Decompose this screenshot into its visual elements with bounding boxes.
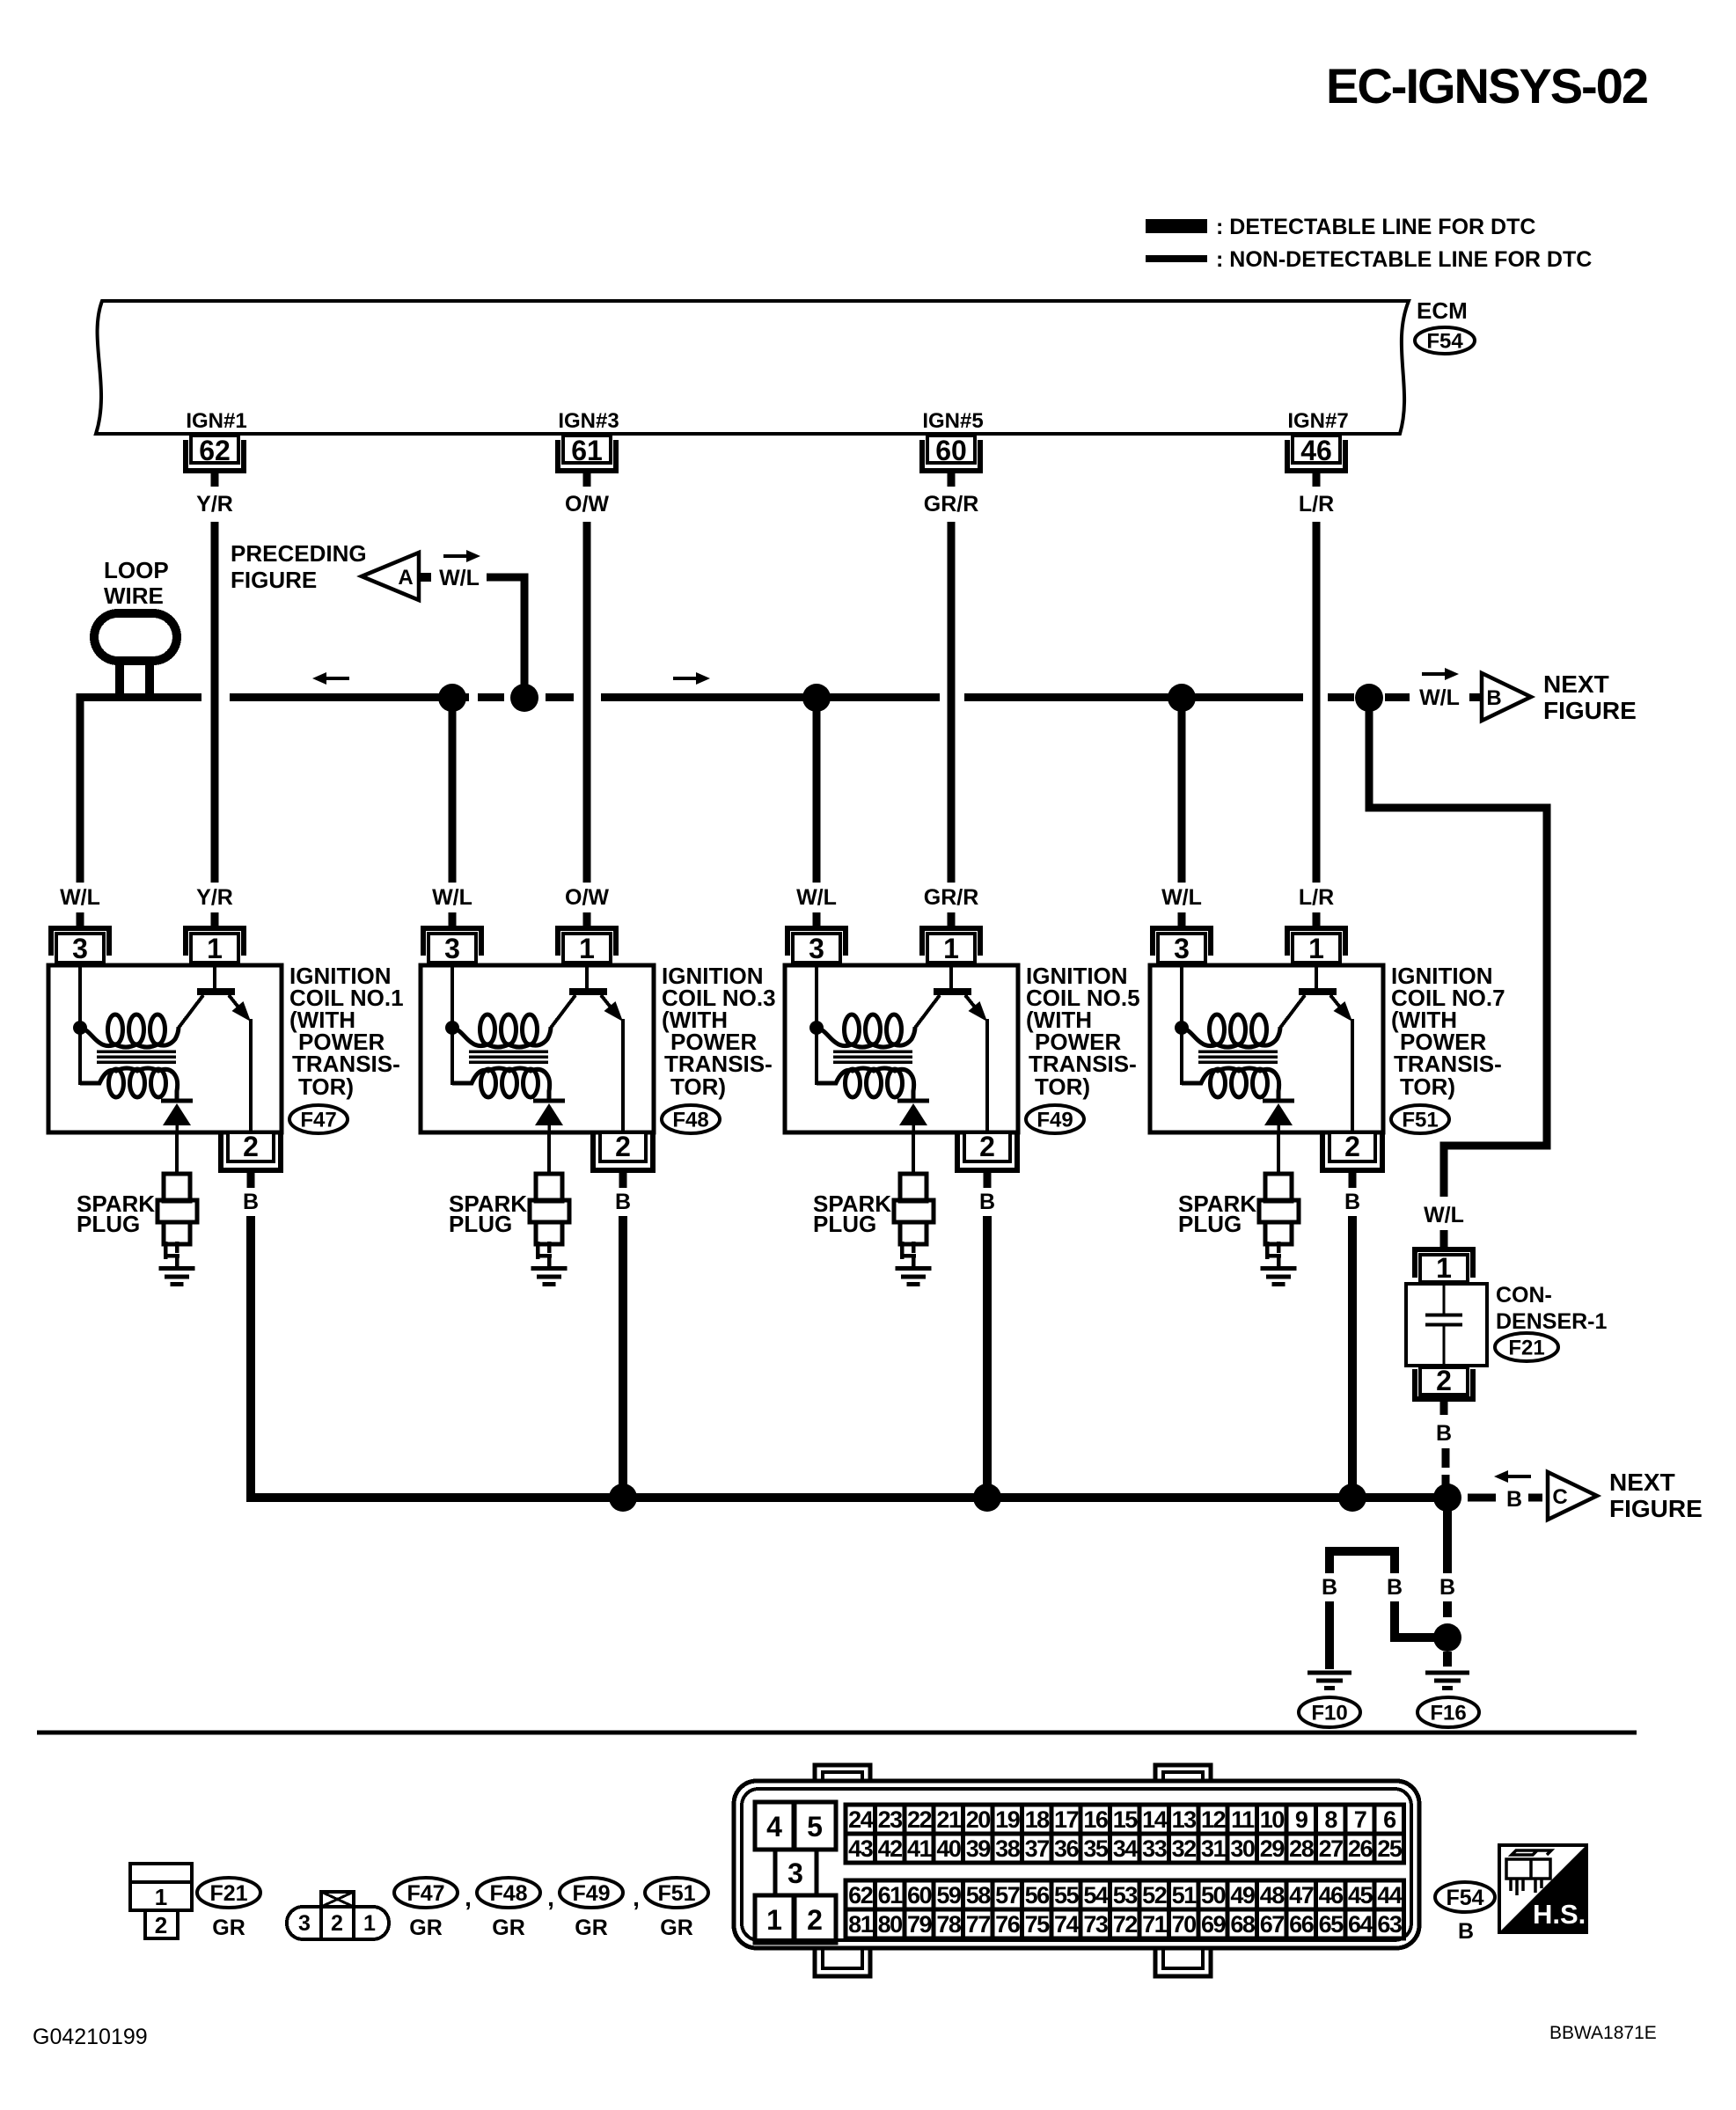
svg-text:B: B: [615, 1190, 631, 1214]
svg-text:61: 61: [878, 1882, 904, 1909]
coil NO.7 primary winding: [1182, 1027, 1280, 1047]
coil NO.3 secondary winding: [452, 1068, 550, 1099]
coil NO.7 internal junction dot: [1175, 1021, 1189, 1035]
ECM pin 60: [922, 440, 980, 471]
svg-text:GR: GR: [575, 1916, 608, 1940]
svg-text:53: 53: [1113, 1882, 1139, 1909]
svg-text:2: 2: [155, 1912, 167, 1938]
spark plug ground for coil NO.1: [159, 1266, 195, 1271]
wire W/L vertical to coil pin 3 at x=91: [77, 693, 84, 883]
wire B from coil NO.7 pin 2: [1348, 1216, 1357, 1496]
ECM pin 46: [1287, 440, 1345, 471]
junction dot bus/coil7 B: [1338, 1484, 1366, 1512]
svg-text:14: 14: [1142, 1806, 1168, 1833]
svg-text:2: 2: [331, 1911, 343, 1936]
svg-text:23: 23: [878, 1806, 904, 1833]
svg-text:L/R: L/R: [1299, 492, 1334, 517]
coil NO.7 pin 3: [1153, 928, 1211, 956]
spark plug for coil NO.3: [547, 1132, 551, 1174]
svg-text:W/L: W/L: [432, 885, 472, 910]
svg-text:63: 63: [1377, 1911, 1403, 1938]
loop wire symbol: [94, 613, 177, 661]
svg-text:F21: F21: [1508, 1337, 1544, 1360]
svg-text:B: B: [1322, 1575, 1337, 1600]
svg-text:F47: F47: [300, 1109, 336, 1132]
legend non-detectable line swatch: [1146, 255, 1207, 262]
svg-text:F48: F48: [672, 1109, 708, 1132]
junction dot bus/coil3 B: [609, 1484, 637, 1512]
svg-text:41: 41: [907, 1835, 933, 1862]
svg-text:46: 46: [1300, 435, 1332, 466]
wire W/L vertical to coil pin 3 at x=1343: [1178, 704, 1186, 883]
condenser pin 2: [1415, 1369, 1473, 1399]
svg-text:32: 32: [1172, 1835, 1197, 1862]
svg-text:B: B: [1458, 1919, 1474, 1944]
svg-text:W/L: W/L: [60, 885, 100, 910]
svg-text:22: 22: [907, 1806, 932, 1833]
ground ref F16: [1417, 1697, 1479, 1727]
coil NO.3 pin 3: [423, 928, 481, 956]
B bus dash right 2: [1528, 1494, 1542, 1502]
ignition coil NO.7 box: [1150, 965, 1383, 1132]
spark plug for coil NO.5: [912, 1132, 915, 1174]
condenser box: [1406, 1284, 1487, 1366]
B bus dash right: [1468, 1494, 1496, 1502]
svg-text:FIGURE: FIGURE: [231, 567, 317, 593]
svg-text:45: 45: [1348, 1882, 1373, 1909]
coil NO.3 diode: [533, 1099, 565, 1103]
svg-text:,: ,: [547, 1884, 554, 1911]
svg-text:49: 49: [1230, 1882, 1256, 1909]
svg-text:1: 1: [363, 1911, 376, 1936]
wire B from coil NO.5 pin 2: [983, 1216, 992, 1496]
svg-text:7: 7: [1354, 1806, 1366, 1833]
svg-text:33: 33: [1142, 1835, 1168, 1862]
svg-text:29: 29: [1260, 1835, 1286, 1862]
coil NO.1 internal junction dot: [73, 1021, 87, 1035]
coil NO.7 secondary winding: [1182, 1068, 1279, 1099]
off-page triangle A: [362, 553, 419, 600]
svg-text:TOR): TOR): [298, 1073, 354, 1100]
svg-text:PLUG: PLUG: [77, 1211, 140, 1237]
coil NO.1 primary winding: [80, 1027, 179, 1047]
svg-text:31: 31: [1201, 1835, 1227, 1862]
svg-text:61: 61: [571, 435, 603, 466]
svg-text:TOR): TOR): [1400, 1073, 1455, 1100]
svg-text:PLUG: PLUG: [813, 1211, 876, 1237]
svg-text:1: 1: [579, 933, 595, 964]
coil NO.7 pin 2: [1322, 1134, 1382, 1170]
svg-text:60: 60: [935, 435, 967, 466]
B ground bus: [250, 1493, 1452, 1502]
coil NO.5 pin 1: [922, 928, 980, 956]
svg-text:9: 9: [1295, 1806, 1308, 1833]
svg-text:G04210199: G04210199: [33, 2025, 148, 2049]
connector view F21 (condenser) icon: [130, 1864, 192, 1910]
svg-text:37: 37: [1025, 1835, 1050, 1862]
spark plug ground for coil NO.5: [896, 1266, 932, 1271]
wire B dashed from condenser to bus: [1442, 1448, 1450, 1468]
svg-text:47: 47: [1289, 1882, 1314, 1909]
svg-text:3: 3: [72, 933, 88, 964]
svg-text:81: 81: [848, 1911, 874, 1938]
coil NO.1 diode: [161, 1099, 193, 1103]
coil NO.7 power transistor: [1315, 967, 1318, 989]
svg-text:36: 36: [1054, 1835, 1080, 1862]
coil NO.7 internal pin3 wire: [1182, 967, 1201, 1083]
svg-text:34: 34: [1113, 1835, 1139, 1862]
svg-text:80: 80: [878, 1911, 903, 1938]
svg-text:,: ,: [633, 1884, 640, 1911]
ECM connector key block: [755, 1802, 794, 1850]
svg-text:3: 3: [787, 1857, 803, 1889]
wire stub to condenser pin 1: [1440, 1230, 1448, 1247]
coil NO.1 pin 3: [51, 928, 109, 956]
coil NO.5 secondary winding: [817, 1068, 914, 1099]
svg-text:NEXT: NEXT: [1543, 670, 1609, 698]
coil NO.7 core: [1198, 1050, 1278, 1053]
coil NO.5 core: [833, 1050, 912, 1053]
svg-text:1: 1: [155, 1884, 167, 1910]
W/L bus dash a: [478, 693, 504, 701]
svg-text:70: 70: [1172, 1911, 1197, 1938]
svg-text:GR/R: GR/R: [924, 885, 979, 910]
svg-text:18: 18: [1025, 1806, 1051, 1833]
wire L/R vertical from ECM pin 46: [1313, 522, 1321, 883]
W/L bus dash b: [1328, 693, 1354, 701]
coil NO.1 emitter wire to pin 2: [249, 1019, 253, 1132]
svg-text:12: 12: [1201, 1806, 1226, 1833]
svg-text:2: 2: [807, 1904, 823, 1936]
coil NO.7 pin 1: [1287, 928, 1345, 956]
svg-text:27: 27: [1319, 1835, 1344, 1862]
svg-text:65: 65: [1319, 1911, 1344, 1938]
W/L bus segment 4: [601, 693, 940, 701]
off-page triangle B: [1482, 673, 1531, 721]
junction dot above F16: [1433, 1623, 1461, 1652]
coil NO.3 primary winding: [452, 1027, 551, 1047]
svg-text:EC-IGNSYS-02: EC-IGNSYS-02: [1326, 58, 1647, 114]
wire O/W vertical from ECM pin 61: [583, 522, 591, 883]
svg-text:CON-: CON-: [1496, 1283, 1552, 1308]
ECM connector view tabs: [815, 1765, 870, 1786]
svg-text:67: 67: [1260, 1911, 1285, 1938]
svg-text:15: 15: [1113, 1806, 1139, 1833]
svg-text:B: B: [243, 1190, 259, 1214]
W/L bus dash d: [1469, 693, 1480, 701]
svg-text:FIGURE: FIGURE: [1543, 697, 1637, 724]
junction dot bus/coil3 W/L: [438, 684, 466, 712]
svg-text:26: 26: [1348, 1835, 1373, 1862]
svg-text:IGN#7: IGN#7: [1287, 409, 1348, 433]
svg-text:H.S.: H.S.: [1533, 1899, 1586, 1930]
svg-text:B: B: [1486, 686, 1501, 710]
coil NO.3 internal pin3 wire: [452, 967, 472, 1083]
svg-text:21: 21: [936, 1806, 962, 1833]
svg-text:TOR): TOR): [1035, 1073, 1090, 1100]
svg-text:16: 16: [1083, 1806, 1109, 1833]
ECM connector pin grid upper: [846, 1805, 875, 1834]
svg-text:13: 13: [1172, 1806, 1198, 1833]
svg-text:64: 64: [1348, 1911, 1373, 1938]
ECM connector view ref F54: [1435, 1882, 1495, 1912]
ignition coil NO.1 box: [48, 965, 282, 1132]
connector view ref F47: [394, 1878, 458, 1908]
wire Y/R vertical from ECM pin 62: [211, 522, 219, 883]
H.S. logo: [1499, 1845, 1586, 1932]
svg-text:GR: GR: [492, 1916, 525, 1940]
svg-text:2: 2: [979, 1131, 995, 1162]
svg-text:L/R: L/R: [1299, 885, 1334, 910]
svg-text:W/L: W/L: [1161, 885, 1202, 910]
off-page triangle C: [1548, 1472, 1597, 1520]
svg-text:1: 1: [207, 933, 223, 964]
ECM connector view body: [734, 1781, 1419, 1948]
wire B middle leg to junction: [1395, 1601, 1434, 1637]
coil NO.7 emitter wire to pin 2: [1351, 1019, 1354, 1132]
svg-text:3: 3: [1174, 933, 1190, 964]
svg-text:,: ,: [465, 1884, 472, 1911]
junction dot bus/condenser wire: [1355, 684, 1383, 712]
svg-text:BBWA1871E: BBWA1871E: [1549, 2023, 1657, 2043]
svg-text:DENSER-1: DENSER-1: [1496, 1309, 1608, 1334]
svg-text:43: 43: [848, 1835, 874, 1862]
coil NO.7 diode: [1263, 1099, 1294, 1103]
svg-text:F47: F47: [407, 1881, 444, 1906]
svg-text:Y/R: Y/R: [196, 885, 233, 910]
svg-text:51: 51: [1172, 1882, 1198, 1909]
svg-text:B: B: [1387, 1575, 1403, 1600]
svg-text:38: 38: [995, 1835, 1021, 1862]
svg-text:W/L: W/L: [1419, 685, 1460, 710]
svg-text:66: 66: [1289, 1911, 1315, 1938]
svg-text:W/L: W/L: [439, 566, 480, 590]
svg-text:62: 62: [199, 435, 231, 466]
svg-text:60: 60: [907, 1882, 932, 1909]
svg-text:FIGURE: FIGURE: [1609, 1495, 1703, 1522]
svg-text:F51: F51: [1402, 1109, 1438, 1132]
ignition coil NO.3 box: [421, 965, 654, 1132]
svg-text:3: 3: [298, 1911, 311, 1936]
wire B from bus down to grounds: [1443, 1502, 1452, 1573]
svg-text:GR: GR: [409, 1916, 443, 1940]
W/L bus segment 3: [546, 693, 574, 701]
svg-text:59: 59: [936, 1882, 962, 1909]
coil NO.1 core: [97, 1050, 176, 1053]
coil NO.3 power transistor: [585, 967, 589, 989]
svg-text:GR: GR: [660, 1916, 693, 1940]
svg-text:28: 28: [1289, 1835, 1315, 1862]
coil NO.3 core: [469, 1050, 548, 1053]
svg-text:68: 68: [1230, 1911, 1256, 1938]
svg-text:F54: F54: [1426, 330, 1463, 354]
coil NO.1 pin 2: [221, 1134, 281, 1170]
svg-text:75: 75: [1025, 1911, 1051, 1938]
svg-text:F16: F16: [1430, 1702, 1466, 1725]
wire B from coil NO.1 pin 2: [251, 1216, 264, 1498]
svg-text:3: 3: [809, 933, 824, 964]
svg-text:3: 3: [444, 933, 460, 964]
spark plug ground for coil NO.7: [1261, 1266, 1297, 1271]
arrow left above B: [1494, 1470, 1531, 1483]
svg-text:A: A: [398, 566, 413, 590]
svg-text:PRECEDING: PRECEDING: [231, 540, 367, 567]
svg-text:Y/R: Y/R: [196, 492, 233, 517]
ECM box (connector F54): [96, 301, 1409, 434]
svg-text:1: 1: [1436, 1252, 1452, 1284]
svg-text:TOR): TOR): [670, 1073, 726, 1100]
svg-text:74: 74: [1054, 1911, 1080, 1938]
svg-text:79: 79: [907, 1911, 933, 1938]
condenser connector ref F21: [1495, 1333, 1558, 1361]
coil NO.5 connector ref F49: [1026, 1105, 1084, 1133]
svg-text:44: 44: [1377, 1882, 1403, 1909]
coil NO.1 power transistor: [213, 967, 216, 989]
svg-text:62: 62: [848, 1882, 873, 1909]
junction dot bus/coil5 B: [973, 1484, 1001, 1512]
svg-text:78: 78: [936, 1911, 962, 1938]
ECM connector pin grid lower: [846, 1880, 875, 1909]
svg-text:: NON-DETECTABLE LINE FOR DTC: : NON-DETECTABLE LINE FOR DTC: [1216, 247, 1592, 272]
svg-text:5: 5: [807, 1811, 823, 1843]
junction dot bus/A wire: [510, 684, 538, 712]
wire B to ground F10: [1325, 1601, 1334, 1669]
svg-text:2: 2: [1344, 1131, 1360, 1162]
junction dot bus/coil5 W/L: [802, 684, 831, 712]
svg-text:GR: GR: [212, 1916, 245, 1940]
svg-text:F49: F49: [572, 1881, 610, 1906]
svg-text:40: 40: [936, 1835, 961, 1862]
spark plug ground for coil NO.3: [531, 1266, 568, 1271]
svg-text:35: 35: [1083, 1835, 1109, 1862]
junction dot bus/coil7 W/L: [1168, 684, 1196, 712]
coil NO.1 internal pin3 wire: [80, 967, 99, 1083]
svg-text:77: 77: [966, 1911, 991, 1938]
svg-text:F21: F21: [209, 1881, 247, 1906]
svg-text:2: 2: [243, 1131, 259, 1162]
legend detectable line swatch: [1146, 219, 1207, 233]
spark plug for coil NO.7: [1277, 1132, 1280, 1174]
ECM pin 62: [186, 440, 244, 471]
ground symbol F16: [1425, 1671, 1469, 1675]
spark plug for coil NO.1: [175, 1132, 179, 1174]
svg-text:GR/R: GR/R: [924, 492, 979, 517]
svg-text:1: 1: [1308, 933, 1324, 964]
svg-text:F49: F49: [1036, 1109, 1073, 1132]
svg-text:48: 48: [1260, 1882, 1286, 1909]
svg-text:B: B: [1506, 1487, 1522, 1512]
svg-text:50: 50: [1201, 1882, 1226, 1909]
svg-text:B: B: [1436, 1421, 1452, 1446]
wire color label W/L (B, on bus): [1411, 679, 1468, 711]
svg-text:25: 25: [1377, 1835, 1403, 1862]
svg-text:6: 6: [1383, 1806, 1396, 1833]
coil NO.3 pin 1: [558, 928, 616, 956]
arrow right on bus: [673, 672, 710, 685]
wire GR/R vertical from ECM pin 60: [948, 522, 956, 883]
svg-text:71: 71: [1142, 1911, 1168, 1938]
W/L bus segment 5: [964, 693, 1303, 701]
svg-text:39: 39: [966, 1835, 992, 1862]
svg-text:IGN#5: IGN#5: [922, 409, 983, 433]
svg-text:IGN#1: IGN#1: [186, 409, 246, 433]
svg-text:1: 1: [943, 933, 959, 964]
svg-text:O/W: O/W: [565, 492, 609, 517]
wire B dash above F16 junction: [1443, 1601, 1452, 1617]
svg-text:B: B: [979, 1190, 995, 1214]
coil NO.7 connector ref F51: [1391, 1105, 1449, 1133]
svg-text:30: 30: [1230, 1835, 1255, 1862]
connector view ref F49: [560, 1878, 623, 1908]
svg-text:55: 55: [1054, 1882, 1080, 1909]
ECM connector ref F54: [1415, 327, 1475, 354]
svg-text:10: 10: [1260, 1806, 1285, 1833]
svg-text:2: 2: [615, 1131, 631, 1162]
svg-text:F54: F54: [1446, 1886, 1483, 1910]
coil NO.5 power transistor: [949, 967, 953, 989]
ignition coil NO.5 box: [785, 965, 1018, 1132]
coil NO.3 emitter wire to pin 2: [621, 1019, 625, 1132]
svg-text:52: 52: [1142, 1882, 1167, 1909]
svg-text:W/L: W/L: [1424, 1203, 1464, 1227]
svg-text:57: 57: [995, 1882, 1020, 1909]
svg-text:NEXT: NEXT: [1609, 1469, 1675, 1496]
ECM pin 61: [558, 440, 616, 471]
svg-text:58: 58: [966, 1882, 992, 1909]
coil NO.3 connector ref F48: [662, 1105, 720, 1133]
condenser pin 1: [1415, 1249, 1473, 1278]
ground symbol F10: [1307, 1671, 1351, 1675]
wire B from coil NO.3 pin 2: [619, 1216, 627, 1496]
wire B dash to F16 ground: [1443, 1652, 1452, 1667]
svg-text:11: 11: [1231, 1806, 1255, 1833]
svg-text:20: 20: [966, 1806, 991, 1833]
coil NO.1 connector ref F47: [289, 1105, 348, 1133]
svg-text:24: 24: [848, 1806, 874, 1833]
svg-text:B: B: [1344, 1190, 1360, 1214]
svg-text:1: 1: [766, 1904, 782, 1936]
svg-text:42: 42: [878, 1835, 903, 1862]
coil NO.3 pin 2: [593, 1134, 653, 1170]
svg-text:2: 2: [1436, 1365, 1452, 1396]
svg-text:54: 54: [1083, 1882, 1109, 1909]
condenser capacitor symbol: [1443, 1282, 1446, 1314]
connector view ref F51: [645, 1878, 708, 1908]
svg-text:W/L: W/L: [796, 885, 837, 910]
svg-text:PLUG: PLUG: [449, 1211, 512, 1237]
coil NO.5 pin 2: [957, 1134, 1017, 1170]
svg-text:73: 73: [1083, 1911, 1109, 1938]
coil NO.5 primary winding: [817, 1027, 915, 1047]
svg-text:IGN#3: IGN#3: [558, 409, 619, 433]
svg-text:19: 19: [995, 1806, 1021, 1833]
wire W/L from A to bus: [487, 577, 524, 692]
svg-text:: DETECTABLE LINE FOR DTC: : DETECTABLE LINE FOR DTC: [1216, 215, 1535, 239]
separator rule: [37, 1731, 1637, 1735]
coil NO.5 emitter wire to pin 2: [985, 1019, 989, 1132]
ground harness bracket: [1329, 1551, 1395, 1573]
svg-text:LOOP: LOOP: [104, 557, 169, 583]
coil NO.5 internal junction dot: [809, 1021, 824, 1035]
coil NO.5 diode: [897, 1099, 929, 1103]
svg-text:F48: F48: [489, 1881, 527, 1906]
connector view F21 ref: [197, 1878, 260, 1908]
svg-text:8: 8: [1324, 1806, 1337, 1833]
coil NO.1 pin 1: [186, 928, 244, 956]
wire W/L from bus to condenser: [1369, 704, 1547, 1197]
svg-text:F10: F10: [1311, 1702, 1347, 1725]
svg-text:F51: F51: [657, 1881, 695, 1906]
